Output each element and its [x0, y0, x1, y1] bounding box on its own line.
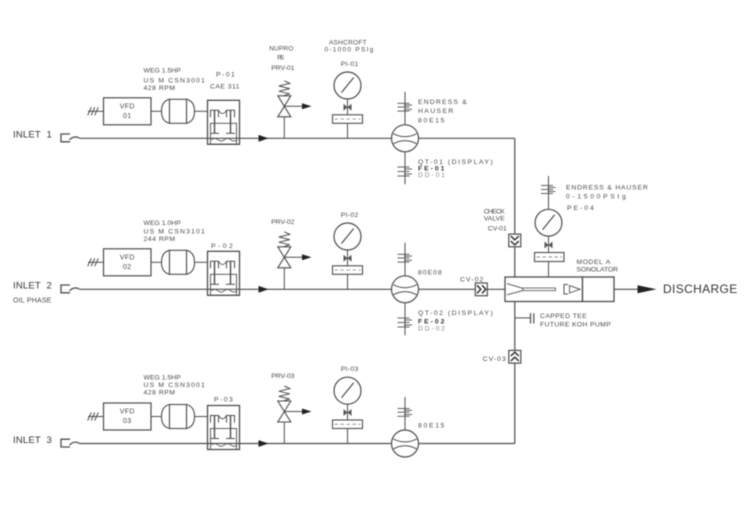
- svg-text:WEG 1.0HP: WEG 1.0HP: [144, 220, 182, 227]
- sonolator U1 outlet chamber: [583, 277, 615, 302]
- svg-text:HAUSER: HAUSER: [418, 108, 454, 115]
- PE-04 diaphragm seal: [535, 253, 565, 262]
- svg-text:OIL PHASE: OIL PHASE: [13, 297, 52, 304]
- pump P-03 liquid end: [211, 429, 237, 450]
- VFD 01 drive box: [104, 98, 152, 125]
- flow meter FE-01 signal stem below: [404, 152, 406, 185]
- relief valve PRV-03 vent arrow: [284, 411, 303, 413]
- gauge PI-03 stem: [347, 404, 349, 420]
- flow direction arrow: [259, 286, 269, 293]
- svg-text:CV-01: CV-01: [488, 226, 507, 233]
- pressure transmitter PE-04 dial: [535, 209, 562, 236]
- pump P-03 plungers: [211, 416, 219, 423]
- electrical supply to VFD 3: [88, 416, 104, 418]
- svg-text:DD-01: DD-01: [418, 172, 445, 179]
- svg-text:DISCHARGE: DISCHARGE: [663, 282, 738, 296]
- svg-text:WEG 1.5HP: WEG 1.5HP: [144, 68, 182, 75]
- svg-text:NUPRO: NUPRO: [269, 46, 293, 53]
- svg-text:QT-02 (DISPLAY): QT-02 (DISPLAY): [418, 310, 493, 317]
- pump P-03 body: [208, 406, 240, 450]
- svg-text:PRV-03: PRV-03: [271, 373, 294, 380]
- flow meter FE-02 body: [392, 276, 419, 303]
- gauge PI-03 isolation valve: [344, 409, 348, 416]
- svg-text:244 RPM: 244 RPM: [144, 236, 176, 243]
- sonolator blade: [564, 285, 568, 295]
- pump P-01 liquid level: [212, 139, 238, 142]
- gauge PI-01 isolation valve: [344, 104, 348, 111]
- svg-text:US M CSN3101: US M CSN3101: [144, 229, 206, 236]
- pump P-03 liquid level: [212, 444, 238, 447]
- svg-text:CHECK: CHECK: [484, 209, 506, 216]
- pump P-02 liquid end: [211, 274, 237, 295]
- gauge PI-02 isolation valve: [344, 255, 348, 262]
- relief valve PRV-03 body: [278, 401, 291, 412]
- shaft wire VFD 01 to motor: [151, 110, 161, 112]
- svg-text:P-01: P-01: [216, 72, 235, 79]
- inlet connector 2: [61, 285, 70, 293]
- wire seal to pipe: [347, 274, 349, 289]
- svg-text:CAE 311: CAE 311: [210, 83, 240, 90]
- svg-text:FUTURE KOH PUMP: FUTURE KOH PUMP: [540, 321, 611, 328]
- gauge PI-02 diaphragm seal: [333, 266, 363, 275]
- relief valve PRV-02 body: [278, 247, 291, 257]
- motor M01: [162, 99, 170, 123]
- pressure transmitter PE-04 signal stem: [548, 176, 550, 210]
- svg-text:INLET 3: INLET 3: [13, 435, 52, 446]
- relief valve PRV-01 spring: [279, 81, 290, 96]
- pipe inlet 3 main run: [79, 443, 515, 445]
- pressure gauge PI-02 dial: [334, 223, 361, 250]
- motor M02: [162, 250, 170, 274]
- wire PRV-02 to pipe: [283, 268, 285, 290]
- pump P-02 body: [208, 251, 240, 295]
- svg-text:INLET 2: INLET 2: [13, 281, 52, 292]
- svg-text:ENDRESS & HAUSER: ENDRESS & HAUSER: [566, 185, 648, 192]
- pump P-02 liquid level: [212, 290, 238, 293]
- svg-text:US M CSN3001: US M CSN3001: [144, 77, 206, 84]
- wire seal to pipe: [347, 429, 349, 444]
- electrical supply to VFD 2: [88, 261, 104, 263]
- relief valve PRV-02 spring: [279, 232, 290, 247]
- discharge arrow: [638, 285, 657, 293]
- svg-text:FE-02: FE-02: [418, 318, 445, 325]
- capped tee branch: [515, 317, 530, 319]
- check valve CV-03: [509, 350, 521, 363]
- gauge PI-02 stem: [347, 250, 349, 266]
- svg-text:VFD: VFD: [120, 409, 135, 416]
- svg-text:PE-04: PE-04: [567, 205, 594, 212]
- pump P-01 body: [208, 100, 240, 144]
- pipe inlet 2 main run: [79, 288, 505, 290]
- svg-text:US M CSN3001: US M CSN3001: [144, 382, 206, 389]
- pipe inlet 3 riser to sonolator: [514, 300, 516, 444]
- svg-text:P-02: P-02: [211, 243, 233, 250]
- svg-text:PRV-01: PRV-01: [271, 65, 294, 72]
- pump P-01 liquid end: [211, 123, 237, 144]
- relief valve PRV-02 vent arrow: [284, 256, 303, 258]
- relief valve PRV-01 vent arrow: [284, 105, 303, 107]
- shaft wire motor to pump P-01: [194, 110, 208, 112]
- inlet connector 3: [61, 439, 70, 447]
- wire PRV-01 to pipe: [283, 117, 285, 139]
- relief valve PRV-03 spring: [279, 386, 290, 401]
- shaft wire VFD 03 to motor: [151, 416, 161, 418]
- svg-text:CV-03: CV-03: [483, 356, 506, 363]
- svg-text:80E15: 80E15: [418, 422, 445, 429]
- pressure gauge PI-03 dial: [334, 377, 361, 404]
- relief valve PRV-01 body: [278, 96, 291, 107]
- flow meter FE-03 signal stem above: [404, 397, 406, 430]
- svg-text:PRV-02: PRV-02: [271, 219, 294, 226]
- svg-text:VFD: VFD: [120, 254, 135, 261]
- svg-text:PI-02: PI-02: [341, 212, 359, 219]
- svg-text:DD-02: DD-02: [418, 326, 445, 333]
- pump P-01 plungers: [211, 110, 219, 117]
- sonolator U1 main chamber: [505, 277, 583, 302]
- svg-text:MODEL A: MODEL A: [577, 259, 611, 266]
- svg-text:QT-01 (DISPLAY): QT-01 (DISPLAY): [418, 159, 493, 166]
- svg-text:WEG 1.5HP: WEG 1.5HP: [144, 375, 182, 382]
- motor M03: [162, 405, 170, 429]
- svg-text:80E08: 80E08: [418, 270, 442, 277]
- shaft wire motor to pump P-03: [194, 416, 208, 418]
- svg-text:01: 01: [123, 113, 132, 120]
- svg-text:VFD: VFD: [120, 103, 135, 110]
- svg-text:428 RPM: 428 RPM: [144, 85, 176, 92]
- pressure gauge PI-01 dial: [334, 72, 361, 99]
- electrical supply to VFD 1: [88, 110, 104, 112]
- svg-text:02: 02: [123, 264, 132, 271]
- VFD 03 drive box: [104, 403, 152, 430]
- svg-text:PI-03: PI-03: [341, 366, 359, 373]
- flow meter FE-01 signal stem above: [404, 92, 406, 125]
- flow direction arrow: [259, 135, 269, 142]
- pipe inlet 1 main run: [79, 137, 515, 139]
- svg-text:80E15: 80E15: [418, 118, 445, 125]
- wire PE-04 seal to sonolator: [548, 262, 550, 279]
- flow meter FE-01 body: [392, 125, 419, 152]
- svg-text:SONOLATOR: SONOLATOR: [577, 266, 619, 273]
- check valve CV-02: [475, 283, 487, 296]
- shaft wire VFD 02 to motor: [151, 261, 161, 263]
- svg-text:PI-01: PI-01: [341, 61, 359, 68]
- svg-text:0-1000 PSIg: 0-1000 PSIg: [324, 46, 373, 53]
- svg-text:P-03: P-03: [214, 397, 233, 404]
- pipe inlet 1 drop to sonolator: [514, 138, 516, 278]
- check valve CV-01: [509, 234, 521, 247]
- pump P-02 plungers: [211, 261, 219, 268]
- svg-text:INLET 1: INLET 1: [13, 130, 52, 141]
- gauge PI-01 stem: [347, 99, 349, 115]
- svg-text:428 RPM: 428 RPM: [144, 390, 176, 397]
- svg-text:CAPPED TEE: CAPPED TEE: [540, 313, 587, 320]
- flow meter FE-02 signal stem above: [404, 243, 406, 276]
- shaft wire motor to pump P-02: [194, 261, 208, 263]
- flow direction arrow: [259, 440, 269, 447]
- sonolator nozzle: [507, 284, 523, 289]
- flow meter FE-02 signal stem below: [404, 303, 406, 336]
- flow meter FE-03 body: [392, 430, 419, 457]
- PE-04 isolation valve: [545, 242, 549, 249]
- wire PRV-03 to pipe: [283, 422, 285, 444]
- PE-04 stem to seal: [548, 236, 550, 252]
- svg-text:RS: RS: [277, 55, 285, 62]
- gauge PI-01 diaphragm seal: [333, 115, 363, 124]
- gauge PI-03 diaphragm seal: [333, 420, 363, 429]
- svg-text:VALVE: VALVE: [484, 216, 506, 223]
- VFD 02 drive box: [104, 249, 152, 276]
- svg-text:03: 03: [123, 418, 132, 425]
- wire seal to pipe: [347, 123, 349, 138]
- discharge pipe: [614, 288, 638, 290]
- inlet connector 1: [61, 134, 70, 142]
- svg-text:ENDRESS &: ENDRESS &: [418, 99, 467, 106]
